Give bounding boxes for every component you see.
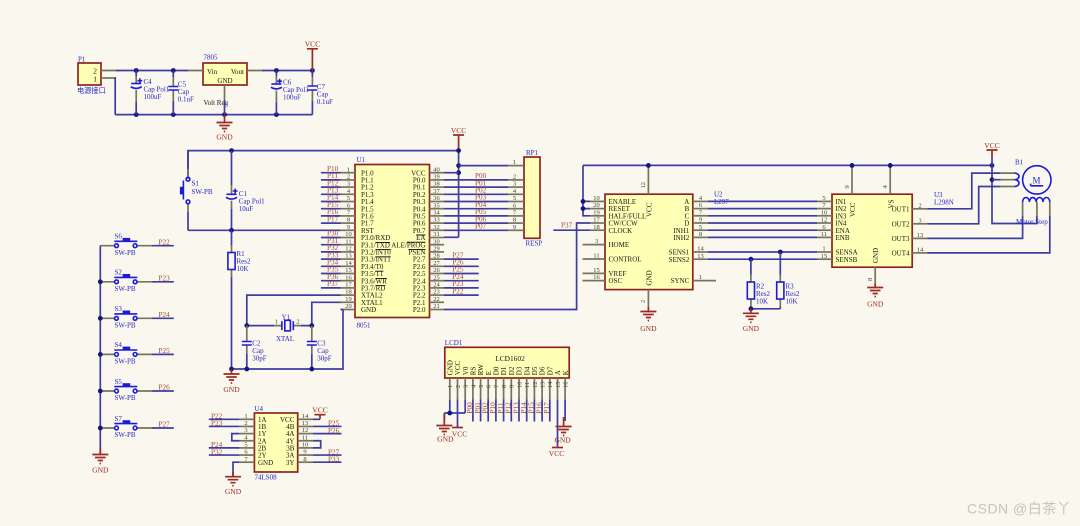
svg-text:16: 16 (345, 274, 352, 281)
svg-text:GND: GND (225, 487, 242, 496)
switch S3 (100, 305, 152, 329)
wire OUT3 to winding2 left (927, 216, 1022, 238)
wire net P32 at U4 (209, 454, 240, 456)
svg-text:U4: U4 (255, 405, 264, 413)
overlines U1 pin names (376, 235, 426, 286)
wire crystal row left (247, 318, 274, 326)
svg-text:SW-PB: SW-PB (115, 285, 136, 293)
svg-text:VCC: VCC (411, 169, 426, 177)
wire P1 pin1 down to ground rail (114, 78, 117, 115)
wire net P34 (321, 265, 341, 267)
svg-text:34: 34 (433, 210, 440, 217)
svg-text:9: 9 (303, 449, 306, 456)
svg-text:0.1uF: 0.1uF (317, 98, 333, 106)
svg-text:S6: S6 (115, 233, 123, 241)
svg-text:LCD1602: LCD1602 (495, 354, 525, 363)
svg-text:P0.3: P0.3 (413, 198, 426, 206)
junction winding1 center tap (990, 177, 995, 182)
svg-text:6: 6 (486, 384, 493, 388)
wire net P25 at U1 (444, 273, 479, 275)
wire LCD net P11 (503, 399, 505, 421)
svg-text:SENSB: SENSB (836, 256, 858, 264)
svg-text:S5: S5 (115, 378, 123, 386)
svg-text:100uF: 100uF (283, 94, 301, 102)
svg-text:19: 19 (593, 209, 600, 216)
wire net P03 (444, 201, 508, 203)
svg-text:0.1uF: 0.1uF (178, 95, 194, 103)
svg-text:5: 5 (244, 442, 247, 449)
svg-text:30pF: 30pF (252, 355, 266, 363)
svg-text:P22: P22 (452, 287, 464, 295)
connector P1 (77, 56, 116, 96)
svg-text:10: 10 (302, 442, 309, 449)
power port VCC LCD pin15 (down) (549, 448, 564, 459)
svg-text:VCC: VCC (549, 449, 564, 458)
svg-text:GND: GND (258, 459, 273, 467)
wire RST rail (188, 229, 341, 231)
svg-text:P33: P33 (328, 455, 340, 463)
wire net P25 at U4 (313, 425, 342, 427)
resistor R1 (228, 230, 251, 277)
svg-text:P27: P27 (159, 421, 171, 429)
junction S3 (98, 316, 103, 321)
svg-text:SW-PB: SW-PB (115, 431, 136, 439)
junction RST node (229, 228, 234, 233)
svg-text:HOME: HOME (609, 241, 630, 249)
wire LCD net P17 (549, 399, 551, 421)
wire net P11 (321, 179, 341, 181)
wire U1 P2.0 to U2 CW/CCW (444, 223, 590, 310)
wire VCC to winding center taps (992, 157, 1037, 224)
svg-text:11: 11 (593, 253, 599, 260)
svg-text:27: 27 (433, 260, 440, 267)
wire LCD net P16 (541, 399, 543, 421)
junction U1 VCC pin40 (456, 170, 461, 175)
junction U3 VCC rail (850, 163, 855, 168)
svg-text:K: K (562, 370, 570, 375)
svg-text:3: 3 (595, 238, 598, 245)
svg-text:P37: P37 (327, 280, 339, 288)
svg-text:18: 18 (345, 289, 352, 296)
junction C5 bottom (171, 112, 176, 117)
svg-text:GND: GND (645, 270, 653, 285)
svg-text:25: 25 (433, 274, 440, 281)
wire net P07 (444, 229, 508, 231)
junction S7 (98, 426, 103, 431)
wire LCD VCC pin2 (457, 399, 459, 427)
svg-text:74LS08: 74LS08 (255, 474, 278, 482)
wire U4 GND pin7 (233, 462, 239, 477)
svg-text:15: 15 (555, 382, 562, 389)
svg-text:3: 3 (463, 385, 470, 388)
svg-text:P22: P22 (159, 238, 171, 246)
junction C4 top (134, 68, 139, 73)
ground GND under R2 R3 (743, 309, 760, 333)
svg-text:11: 11 (345, 238, 351, 245)
junction U2 VCC rail (646, 163, 651, 168)
junction C3 top (309, 323, 314, 328)
junction C2 top (244, 323, 249, 328)
svg-text:P2.3: P2.3 (413, 285, 426, 293)
svg-text:22: 22 (433, 296, 440, 303)
svg-text:37: 37 (433, 188, 440, 195)
wire net P24 at U1 (444, 280, 479, 282)
svg-text:3B: 3B (286, 445, 295, 453)
wire net P33 (321, 258, 341, 260)
ground GND under U3 (867, 284, 884, 309)
wire U2 INH1 to U3 (708, 229, 817, 231)
driver U3 L298N (817, 168, 954, 284)
wire S4 to P25 (152, 353, 174, 355)
junction RESET (581, 206, 586, 211)
svg-text:20: 20 (345, 303, 352, 310)
svg-text:13: 13 (917, 232, 924, 239)
svg-text:P2.2: P2.2 (413, 292, 426, 300)
svg-text:17: 17 (345, 282, 352, 289)
svg-text:SW-PB: SW-PB (115, 249, 136, 257)
svg-text:VS: VS (888, 199, 896, 208)
svg-text:29: 29 (433, 246, 440, 253)
junction C5 top (171, 68, 176, 73)
svg-text:GND: GND (867, 300, 884, 309)
wire 7805 Vout to C7 (262, 70, 312, 72)
svg-text:14: 14 (302, 413, 309, 420)
wire S7 to P27 (152, 427, 174, 429)
junction 7805 GND (222, 112, 227, 117)
svg-text:8: 8 (867, 278, 874, 281)
switch S1 (180, 169, 213, 212)
svg-text:GND: GND (554, 436, 571, 445)
svg-text:23: 23 (433, 289, 440, 296)
svg-text:16: 16 (593, 274, 600, 281)
svg-text:13: 13 (697, 253, 704, 260)
svg-text:P17: P17 (543, 402, 551, 414)
svg-text:8: 8 (513, 217, 516, 224)
svg-text:P2.6: P2.6 (413, 263, 426, 271)
svg-text:S1: S1 (192, 180, 200, 188)
svg-text:14: 14 (547, 381, 554, 388)
wire S5 to P26 (152, 390, 174, 392)
svg-text:U1: U1 (357, 156, 366, 164)
svg-text:12: 12 (345, 246, 352, 253)
svg-text:5: 5 (699, 224, 702, 231)
wire net P27 at U4 (313, 454, 342, 456)
svg-text:P2.7: P2.7 (413, 256, 426, 264)
svg-text:RP1: RP1 (526, 149, 539, 157)
svg-text:VCC: VCC (849, 202, 857, 217)
svg-text:33: 33 (433, 217, 440, 224)
svg-text:P23: P23 (159, 275, 171, 283)
ground GND crystal (223, 369, 240, 394)
capacitor C4 (131, 71, 170, 115)
ground GND switch bank (92, 447, 109, 475)
junction R1 GND rail (229, 367, 234, 372)
svg-text:P0.7: P0.7 (413, 227, 426, 235)
svg-text:4: 4 (882, 185, 889, 189)
wire U4 VCC pin14 (313, 418, 320, 420)
svg-text:19: 19 (345, 296, 352, 303)
svg-text:P37: P37 (561, 222, 573, 230)
wire net P12 (321, 186, 341, 188)
power port VCC above U1 (451, 126, 466, 151)
wire U4 4Y to 3B (313, 441, 321, 448)
capacitor C5 (168, 71, 194, 115)
wire net P01 (444, 186, 508, 188)
wire LCD net P10 (495, 399, 497, 421)
svg-text:11: 11 (821, 231, 827, 238)
svg-text:11: 11 (524, 382, 531, 388)
power port VCC U4 (312, 405, 327, 419)
svg-text:14: 14 (697, 246, 704, 253)
wire U3 VCC pin to rail (851, 165, 853, 168)
svg-text:RESP: RESP (526, 240, 543, 248)
svg-text:4: 4 (470, 384, 477, 388)
svg-text:36: 36 (433, 195, 440, 202)
wire net P02 (444, 193, 508, 195)
wire OUT1 to winding1 top (927, 173, 1001, 209)
svg-text:XTAL: XTAL (276, 335, 294, 343)
crystal Y1 (274, 314, 301, 344)
wire net P23 at U1 (444, 287, 479, 289)
svg-text:OUT4: OUT4 (892, 250, 910, 258)
svg-text:39: 39 (433, 174, 440, 181)
wire LCD net P15 (533, 399, 535, 421)
resistor R2 (747, 259, 770, 306)
svg-text:S3: S3 (115, 305, 123, 313)
junction ENABLE (581, 199, 586, 204)
wire OUT2 to winding1 bottom (927, 187, 1001, 224)
svg-text:VCC: VCC (312, 405, 327, 414)
svg-text:31: 31 (433, 231, 440, 238)
wire U4 1Y to 2A (232, 434, 240, 441)
svg-text:VCC: VCC (280, 416, 295, 424)
svg-text:1: 1 (447, 385, 454, 388)
wire net P16 (321, 215, 341, 217)
junction VCC stem (310, 68, 315, 73)
resistor R3 (777, 252, 800, 307)
junction S5 (98, 389, 103, 394)
svg-text:GND: GND (92, 466, 109, 475)
svg-text:7: 7 (493, 384, 500, 388)
svg-text:7805: 7805 (204, 54, 219, 62)
svg-text:Vin: Vin (207, 68, 218, 76)
svg-text:3A: 3A (286, 452, 295, 460)
wire LCD net P01 (480, 399, 482, 421)
svg-text:OUT2: OUT2 (892, 220, 910, 228)
svg-text:3Y: 3Y (286, 459, 295, 467)
svg-text:SENS2: SENS2 (669, 256, 690, 264)
svg-text:CONTROL: CONTROL (609, 256, 642, 264)
svg-text:9: 9 (347, 224, 350, 231)
svg-text:VCC: VCC (451, 126, 466, 135)
wire net P23 at U4 (209, 425, 240, 427)
junction S2 (98, 279, 103, 284)
wire 7805 GND down (224, 100, 226, 115)
wire crystal GND rail (232, 310, 344, 370)
svg-text:8: 8 (303, 456, 306, 463)
svg-text:P23: P23 (211, 420, 223, 428)
svg-text:8: 8 (347, 217, 350, 224)
svg-text:15: 15 (345, 267, 352, 274)
svg-text:GND: GND (743, 324, 760, 333)
svg-text:32: 32 (433, 224, 440, 231)
svg-text:M: M (1032, 175, 1040, 185)
svg-text:P0.0: P0.0 (413, 177, 426, 185)
svg-text:P32: P32 (211, 448, 223, 456)
capacitor C7 (307, 71, 333, 115)
svg-text:LCD1: LCD1 (445, 339, 463, 347)
AND gate U4 74LS08 (239, 405, 312, 482)
svg-text:8: 8 (501, 385, 508, 388)
svg-text:12: 12 (821, 217, 828, 224)
svg-text:26: 26 (433, 267, 440, 274)
wire LCD net P14 (526, 399, 528, 421)
svg-text:12: 12 (302, 427, 309, 434)
svg-text:10: 10 (593, 195, 600, 202)
svg-text:GND: GND (217, 77, 232, 85)
svg-text:3: 3 (918, 217, 921, 224)
wire SENS1 (708, 251, 817, 253)
wire net P26 at U4 (313, 433, 342, 435)
power port VCC right rail (984, 141, 999, 157)
wire switch bank common (99, 246, 101, 454)
motor B1 (1001, 159, 1051, 227)
svg-text:SW-PB: SW-PB (115, 321, 136, 329)
svg-text:24: 24 (433, 282, 440, 289)
svg-text:40: 40 (433, 166, 440, 173)
ground GND U4 (225, 472, 242, 496)
svg-text:9: 9 (509, 385, 516, 388)
wire RP1 pin1 (459, 165, 508, 167)
resistor pack RP1 (508, 149, 542, 248)
capacitor C3 (307, 326, 332, 369)
svg-text:P17: P17 (327, 215, 339, 223)
wire S6 to P22 (152, 245, 174, 247)
svg-text:VCC: VCC (305, 40, 320, 49)
junction C6 top (274, 68, 279, 73)
svg-text:5: 5 (478, 385, 485, 388)
svg-text:1: 1 (347, 166, 350, 173)
svg-text:2: 2 (244, 420, 247, 427)
wire net P05 (444, 215, 508, 217)
wire S1 top (187, 151, 189, 169)
junction C4 bottom (134, 112, 139, 117)
wire SENS2 (708, 258, 817, 260)
svg-text:2: 2 (513, 174, 516, 181)
wire U2 A to U3 (708, 200, 817, 202)
svg-text:2: 2 (347, 174, 350, 181)
svg-text:P0.5: P0.5 (413, 213, 426, 221)
wire net P22 at U4 (209, 418, 240, 420)
svg-text:Motor Step: Motor Step (1016, 218, 1048, 226)
junction C6 bottom (274, 112, 279, 117)
svg-text:SW-PB: SW-PB (115, 394, 136, 402)
svg-text:ENB: ENB (836, 234, 850, 242)
wire U2 INH2 to U3 (708, 236, 817, 238)
svg-text:S4: S4 (115, 341, 123, 349)
capacitor C1 (226, 151, 265, 231)
svg-text:1: 1 (822, 246, 825, 253)
svg-text:4A: 4A (286, 430, 295, 438)
wire net P27 at U1 (444, 258, 479, 260)
wire net P04 (444, 208, 508, 210)
svg-text:11: 11 (302, 434, 308, 441)
svg-text:9: 9 (844, 185, 851, 188)
svg-text:13: 13 (540, 382, 547, 389)
svg-text:B1: B1 (1015, 159, 1024, 167)
svg-text:10: 10 (821, 209, 828, 216)
svg-text:38: 38 (433, 181, 440, 188)
wire net P22 at U1 (444, 294, 479, 296)
svg-text:4Y: 4Y (286, 437, 295, 445)
svg-text:SW-PB: SW-PB (192, 188, 213, 196)
wire net P35 (321, 273, 341, 275)
svg-text:13: 13 (345, 253, 352, 260)
wire U2 D to U3 (708, 222, 817, 224)
svg-text:P2.0: P2.0 (413, 306, 426, 314)
svg-text:12: 12 (532, 382, 539, 389)
svg-text:P2.1: P2.1 (413, 299, 426, 307)
switch S7 (100, 415, 152, 439)
wire VCC rail reset section (188, 151, 459, 179)
ground GND LCD left (436, 414, 454, 444)
svg-text:28: 28 (433, 253, 440, 260)
svg-text:1: 1 (93, 75, 97, 84)
svg-text:OUT3: OUT3 (892, 235, 910, 243)
svg-text:P2.4: P2.4 (413, 277, 426, 285)
svg-text:SW-PB: SW-PB (115, 358, 136, 366)
junction VCC rail left (456, 148, 461, 153)
ground GND LCD right (554, 417, 571, 445)
svg-text:5: 5 (513, 195, 516, 202)
svg-text:SYNC: SYNC (671, 277, 690, 285)
junction R3 SENS1 (778, 250, 783, 255)
wire LCD K pin16 (564, 399, 566, 421)
wire net P14 (321, 201, 341, 203)
wire net P10 (321, 172, 341, 174)
wire LCD net P13 (518, 399, 520, 421)
svg-text:P25: P25 (159, 347, 171, 355)
svg-text:2: 2 (640, 300, 647, 303)
svg-text:1: 1 (513, 159, 516, 166)
svg-text:GND: GND (223, 385, 240, 394)
junction R2 GND (749, 306, 754, 311)
wire crystal row right (301, 318, 312, 326)
capacitor C2 (242, 326, 267, 369)
svg-text:VCC: VCC (452, 430, 467, 439)
wire VCC rail right section (583, 164, 992, 166)
svg-text:GND: GND (872, 248, 880, 263)
svg-text:1: 1 (699, 274, 702, 281)
LCD module LCD1 LCD1602 (445, 339, 570, 399)
svg-text:15: 15 (821, 253, 828, 260)
svg-text:17: 17 (593, 217, 600, 224)
ground GND under U2 (640, 307, 657, 333)
wire LCD GND V0 (444, 399, 465, 421)
svg-text:电源接口: 电源接口 (77, 86, 106, 95)
switch S2 (100, 269, 152, 293)
svg-text:P0.2: P0.2 (413, 191, 426, 199)
svg-text:35: 35 (433, 202, 440, 209)
svg-text:1: 1 (244, 413, 247, 420)
wire winding1 center tap (992, 179, 1001, 181)
svg-text:8051: 8051 (357, 322, 372, 330)
ground GND under 7805 (216, 115, 233, 142)
regulator U 7805 (188, 54, 262, 108)
svg-text:12: 12 (640, 182, 647, 189)
switch S5 (100, 378, 152, 402)
svg-text:4B: 4B (286, 423, 295, 431)
